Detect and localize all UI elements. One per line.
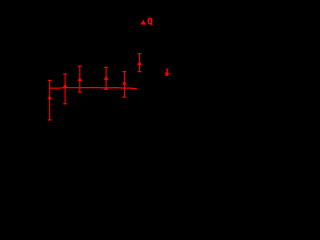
error bar 2 top cap (63, 73, 67, 75)
marker 1 (47, 95, 52, 99)
error bar 5 top cap (123, 71, 127, 73)
error bar 1 top cap (48, 79, 52, 81)
error bar 1 bottom cap (48, 119, 52, 121)
error bar 4 bottom cap (104, 88, 108, 90)
error bar 2 stem (64, 74, 66, 104)
error bar 3 top cap (78, 65, 82, 67)
marker 3 (77, 77, 82, 81)
error bar 6 top cap (138, 53, 142, 55)
legend marker triangle (141, 20, 147, 25)
marker 2 (63, 84, 68, 88)
error bar 6 stem (139, 54, 141, 72)
small glyph body (165, 72, 168, 76)
marker 4 (104, 76, 109, 80)
small glyph dot (169, 73, 170, 74)
data line (50, 88, 138, 89)
error bar 2 bottom cap (63, 103, 67, 105)
marker 6 (137, 61, 142, 65)
error bar 5 stem (123, 72, 125, 98)
error bar 3 stem (79, 66, 81, 92)
error bar 3 bottom cap (78, 91, 82, 93)
error bar 4 stem (105, 67, 107, 89)
error bar 4 top cap (104, 66, 108, 68)
legend label Q (148, 18, 152, 25)
marker 5 (122, 81, 127, 85)
small glyph stem (167, 70, 168, 73)
error bar 5 bottom cap (123, 96, 127, 98)
small glyph top bar (166, 69, 169, 70)
error bar 6 bottom cap (138, 71, 142, 73)
error bar 1 stem (49, 80, 51, 120)
